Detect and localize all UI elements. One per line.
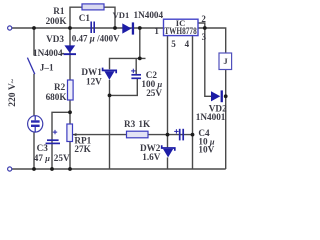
diode VD2 (211, 90, 223, 102)
resistor R1 (82, 4, 104, 10)
node rail switch branch (32, 167, 36, 171)
wire pin2 stub (198, 23, 205, 28)
svg-text:5: 5 (171, 39, 176, 49)
node top-left junction (32, 26, 36, 30)
C4 plus sign (174, 129, 178, 133)
svg-text:0.47 μ /400V: 0.47 μ /400V (72, 34, 120, 44)
terminal bottom-left (8, 167, 12, 171)
svg-text:1N4004: 1N4004 (33, 48, 63, 58)
node DW1 bottom (108, 94, 112, 98)
wire top rail (12, 27, 164, 29)
wire pin4 ground line (192, 36, 194, 169)
svg-text:VD3: VD3 (46, 34, 64, 44)
node rail C3 (50, 167, 54, 171)
wire switch to neon (33, 74, 35, 116)
resistor R2 (68, 80, 74, 100)
capacitor C4 (180, 129, 184, 141)
wire C3 tap (52, 112, 70, 169)
diode VD3 (63, 45, 76, 55)
svg-text:220 V~: 220 V~ (7, 78, 18, 107)
wire R1 loop (70, 7, 115, 28)
wire DW2 to rail (167, 157, 169, 169)
RP1 wiper arrow (73, 133, 77, 136)
wire pin3 stub and right rail top (198, 28, 226, 53)
capacitor C2 (131, 75, 141, 79)
svg-text:VD1: VD1 (113, 10, 130, 20)
node R3 DW2 C4 (166, 133, 170, 137)
svg-text:R1: R1 (53, 6, 65, 16)
wire bottom rail (12, 168, 226, 170)
svg-text:DW1: DW1 (81, 67, 102, 77)
svg-text:R3: R3 (124, 119, 136, 129)
svg-text:C3: C3 (37, 143, 49, 153)
wire RP1 wiper / R3 / C4 row (73, 134, 193, 136)
node DW1 top (138, 57, 142, 61)
svg-text:4: 4 (185, 39, 190, 49)
C3 plus sign (53, 130, 57, 134)
potentiometer RP1 (67, 124, 73, 142)
capacitor C1 (91, 22, 94, 34)
terminal top-left (8, 26, 12, 30)
svg-text:1: 1 (154, 26, 159, 36)
node C4 right (191, 133, 195, 137)
switch J-1 (27, 58, 34, 75)
svg-text:J–1: J–1 (40, 62, 54, 72)
resistor R3 (127, 131, 149, 138)
wire DW1 ground line (109, 80, 111, 169)
wire switch branch upper (33, 28, 35, 55)
node R1C1 right (113, 26, 117, 30)
zener DW2 (162, 145, 175, 157)
relay box J (219, 53, 232, 70)
svg-text:680K: 680K (46, 92, 68, 102)
wire DW1 top node (110, 58, 146, 69)
svg-text:J: J (223, 56, 228, 66)
node VD2 cathode (224, 94, 228, 98)
wire VD2 anode drop (205, 28, 211, 96)
wire C2 top lead (135, 58, 137, 74)
svg-text:1N4004: 1N4004 (134, 10, 164, 20)
capacitor C3 (46, 140, 60, 143)
node R2 RP1 C3 (68, 110, 72, 114)
wire VD3/R2/RP1 branch (69, 28, 71, 169)
svg-text:1K: 1K (138, 119, 151, 129)
wire pin5 line upper (167, 36, 169, 148)
node R1C1 left (68, 26, 72, 30)
wire C2 bottom lead (110, 79, 138, 96)
svg-text:TWH8778: TWH8778 (164, 26, 197, 36)
svg-text:1.6V: 1.6V (142, 152, 160, 162)
svg-text:27K: 27K (74, 144, 91, 154)
svg-text:R2: R2 (54, 82, 66, 92)
wire VD2 node to rail (225, 96, 227, 169)
node pin23 junction (203, 26, 207, 30)
svg-text:25V: 25V (54, 153, 70, 163)
wire J to VD2 node (225, 70, 227, 97)
svg-text:25V: 25V (146, 88, 162, 98)
zener DW1 (103, 68, 117, 80)
VD3 label dash (61, 52, 64, 54)
node rail RP1 (68, 167, 72, 171)
svg-text:1N4001: 1N4001 (196, 112, 226, 122)
node VD1 cathode (138, 26, 142, 30)
svg-text:3: 3 (202, 32, 207, 42)
wire VD1 cathode drop (139, 28, 141, 58)
diode VD1 (122, 22, 134, 34)
svg-text:2: 2 (201, 14, 206, 24)
svg-text:10V: 10V (198, 144, 214, 154)
wire neon to bottom rail (33, 132, 35, 169)
neon lamp HL (28, 116, 43, 132)
svg-text:200K: 200K (46, 16, 68, 26)
svg-text:C1: C1 (79, 13, 91, 23)
svg-text:47 μ: 47 μ (34, 153, 50, 163)
svg-text:12V: 12V (86, 77, 102, 87)
IC U1 TWH8778 box (164, 19, 199, 35)
C2 plus sign (131, 69, 135, 73)
